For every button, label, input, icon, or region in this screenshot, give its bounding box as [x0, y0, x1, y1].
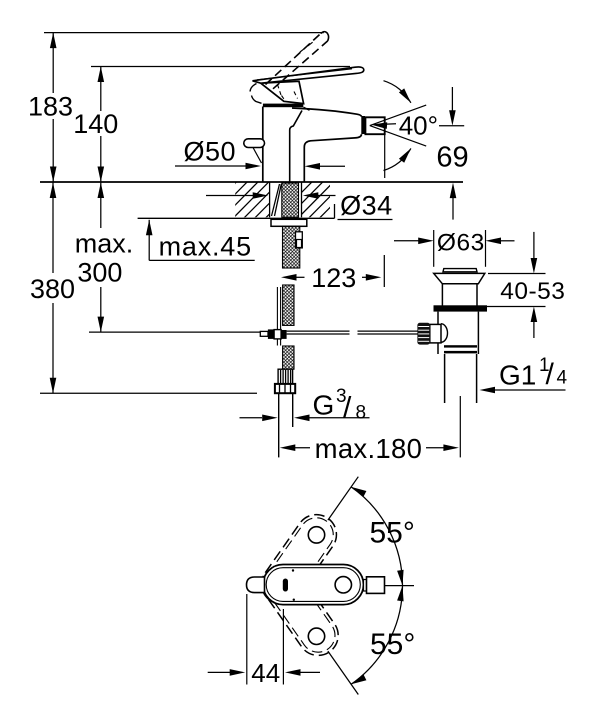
- base plan aerator fitting: [364, 580, 367, 592]
- dimension 40-53: [488, 273, 546, 275]
- handle cone base: [261, 81, 304, 103]
- waste O-ring: [434, 305, 488, 311]
- knurled rod knob: [417, 323, 430, 345]
- rod coupling: [260, 331, 268, 336]
- svg-text:Ø63: Ø63: [437, 230, 485, 257]
- dimension 380: [52, 183, 54, 274]
- svg-text:/: /: [546, 358, 555, 391]
- extension line aerator: [384, 134, 386, 178]
- dimension 123: [281, 274, 297, 281]
- svg-text:/: /: [343, 392, 352, 425]
- supply tube: [278, 393, 280, 457]
- swivel hole lower: [308, 628, 324, 644]
- svg-text:Ø34: Ø34: [340, 190, 393, 220]
- base plan spout hole: [335, 577, 351, 593]
- dimension 40 degree spray angle: [370, 105, 426, 126]
- swivel angle arc lower: [351, 586, 402, 685]
- svg-text:183: 183: [28, 92, 73, 122]
- svg-text:55°: 55°: [370, 517, 415, 550]
- waste cap flare: [434, 273, 485, 283]
- svg-text:G1: G1: [499, 360, 536, 391]
- dimension 140: [100, 67, 102, 112]
- check valve fitting: [296, 232, 303, 248]
- label G 3/8: [240, 417, 263, 419]
- handle lever back hook: [250, 84, 257, 92]
- dimension diameter 63: [433, 230, 435, 267]
- rod connector block: [430, 324, 441, 343]
- base plan dots: [292, 569, 294, 571]
- waste centerline: [459, 396, 461, 457]
- threaded nipple: [278, 369, 293, 384]
- svg-text:123: 123: [311, 263, 356, 293]
- dimension diameter 34: [206, 195, 254, 197]
- svg-text:8: 8: [356, 403, 367, 424]
- waste body: [437, 312, 439, 354]
- clamping wedge: [272, 184, 280, 216]
- aerator box: [365, 117, 384, 134]
- svg-text:300: 300: [77, 258, 122, 288]
- waste neck: [441, 284, 443, 306]
- threaded shank in deck: [282, 183, 299, 217]
- svg-text:44: 44: [251, 658, 280, 688]
- svg-text:380: 380: [30, 274, 75, 304]
- svg-text:69: 69: [436, 142, 468, 174]
- connection nut: [275, 384, 295, 393]
- svg-text:140: 140: [73, 109, 118, 139]
- handle raised dashed: [266, 34, 321, 85]
- spout top edge: [292, 108, 362, 117]
- pop-up rod to waste: [287, 330, 350, 332]
- waste union bands: [444, 345, 477, 347]
- swivel angle arc upper: [351, 487, 402, 586]
- flexible hose lower section: [283, 346, 294, 369]
- hidden lines in cone: [278, 85, 282, 96]
- faucet body left edge: [262, 107, 264, 183]
- nozzle joint band: [361, 116, 365, 134]
- svg-text:Ø50: Ø50: [184, 136, 237, 166]
- svg-text:max.180: max.180: [315, 433, 423, 464]
- label G 1 1/4: [480, 387, 496, 394]
- faucet body inner front edge: [290, 111, 302, 183]
- svg-text:max.: max.: [75, 228, 134, 258]
- dimension max 180: [280, 444, 296, 451]
- pull rod tube: [276, 287, 278, 329]
- swivel angle rays: [328, 477, 358, 520]
- svg-text:40-53: 40-53: [500, 278, 565, 305]
- cartridge ring dark band: [263, 104, 303, 108]
- base plan view body: [263, 565, 364, 605]
- dimension 69: [439, 125, 464, 127]
- faucet body right edge and spout underside: [304, 134, 361, 182]
- swivel range dashed outline upper: [254, 507, 344, 612]
- svg-text:40°: 40°: [399, 110, 438, 140]
- reference line 183 level: [44, 32, 324, 34]
- countertop deck cross-section: [40, 181, 463, 183]
- dimension max 300: [100, 183, 102, 229]
- svg-text:4: 4: [557, 368, 568, 389]
- waste boss: [441, 324, 448, 343]
- pop-up rod left segment: [89, 331, 260, 333]
- mounting washer: [271, 219, 307, 226]
- dimension 183: [52, 33, 54, 93]
- dimension max 45: [146, 220, 153, 236]
- deck hole walls: [269, 183, 271, 218]
- swivel range dashed outline lower: [256, 558, 346, 663]
- base plan centerline: [385, 585, 415, 587]
- reference line 140 level: [91, 66, 350, 68]
- threaded shank below washer: [283, 226, 300, 268]
- base plan back tab: [247, 577, 265, 593]
- svg-text:G: G: [313, 390, 335, 421]
- pop-up knob tab: [244, 139, 265, 148]
- svg-text:55°: 55°: [370, 628, 415, 661]
- dimension 44: [246, 594, 248, 685]
- swivel hole upper: [308, 527, 324, 543]
- waste tailpipe: [444, 354, 446, 403]
- svg-text:max.45: max.45: [159, 231, 252, 261]
- handle lever solid: [253, 67, 364, 83]
- flexible hose upper section: [283, 285, 294, 325]
- waste plug knob: [443, 269, 477, 272]
- base plan fix slot: [283, 579, 288, 592]
